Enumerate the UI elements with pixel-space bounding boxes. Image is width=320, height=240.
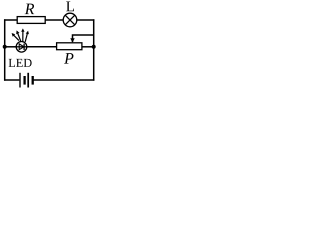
wire top-left horizontal xyxy=(4,19,18,21)
wire potentiometer to right rail xyxy=(82,46,94,48)
wire LED to potentiometer xyxy=(27,46,57,48)
label LED xyxy=(9,59,32,67)
label R xyxy=(25,4,35,14)
LED emission arrows xyxy=(12,28,29,42)
label P xyxy=(64,53,73,63)
battery long plate 1 xyxy=(19,73,21,88)
wiper arrowhead xyxy=(70,38,74,43)
LED xyxy=(16,42,27,53)
wire middle rail left (left rail to LED) xyxy=(5,46,17,48)
wire lamp to top-right corner xyxy=(76,19,94,21)
potentiometer P xyxy=(57,43,82,50)
battery long plate 2 xyxy=(27,73,29,88)
resistor R xyxy=(17,17,45,24)
battery short plate 2 xyxy=(32,76,34,85)
wire left rail xyxy=(4,19,6,80)
wire wiper horizontal to right rail xyxy=(73,35,94,42)
wire resistor to lamp xyxy=(45,19,64,21)
battery short plate 1 xyxy=(23,76,25,85)
lamp L xyxy=(63,13,77,27)
battery xyxy=(20,73,33,88)
wire bottom left (corner to battery) xyxy=(4,79,19,81)
wire bottom right (battery to corner) xyxy=(33,79,94,81)
label L xyxy=(66,1,74,11)
wire right rail xyxy=(93,19,95,80)
node left junction dot xyxy=(3,45,7,49)
node right junction dot xyxy=(92,45,96,49)
